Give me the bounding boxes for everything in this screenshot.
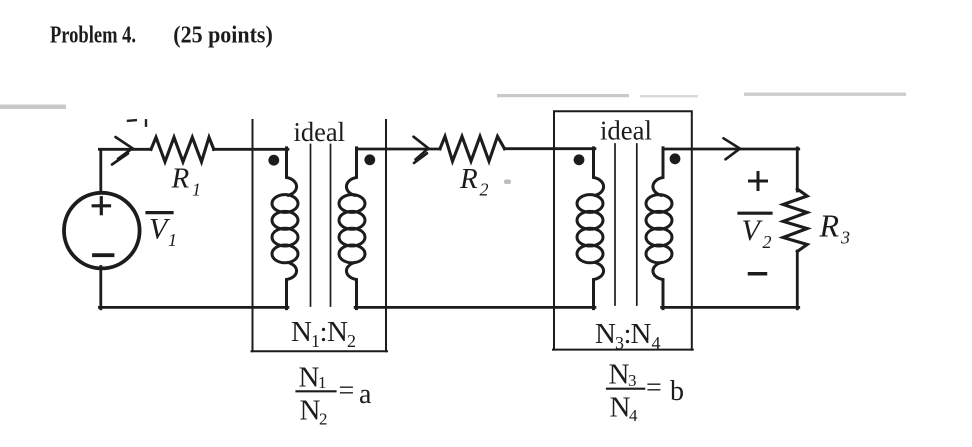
svg-text:3: 3	[840, 228, 850, 248]
wire bottom right	[662, 306, 799, 309]
T1 core lines	[311, 145, 331, 307]
wire right bottom lead	[796, 251, 799, 309]
svg-text:R: R	[171, 163, 190, 195]
wire R1 to T1	[214, 148, 288, 151]
svg-text:b: b	[670, 376, 684, 407]
stray pen mark above wire	[128, 120, 146, 126]
wire top left	[99, 148, 151, 151]
label V1	[147, 213, 177, 251]
svg-text:2: 2	[319, 410, 328, 429]
svg-text:ideal: ideal	[600, 116, 652, 146]
svg-text:=: =	[646, 373, 662, 404]
T1 secondary dot	[364, 154, 375, 165]
voltage source VS1	[64, 193, 140, 269]
svg-text:ideal: ideal	[294, 117, 346, 147]
scan streak top right	[497, 93, 906, 98]
scan streak top left	[0, 105, 66, 110]
svg-text:N: N	[595, 318, 616, 350]
wire bottom left	[99, 306, 288, 309]
svg-text:N: N	[631, 318, 652, 350]
svg-text:N: N	[300, 395, 321, 427]
svg-text:R: R	[459, 163, 478, 195]
scan smudge near R2	[504, 180, 511, 185]
label plus V2	[750, 173, 767, 190]
T2 primary dot	[574, 154, 585, 165]
wire bottom middle	[355, 306, 595, 309]
svg-text:V: V	[742, 214, 764, 247]
label N1:N2	[291, 316, 356, 351]
label R1	[171, 163, 202, 200]
T1 primary winding	[272, 148, 298, 309]
svg-text:R: R	[819, 208, 840, 244]
svg-text:1: 1	[318, 373, 327, 392]
svg-text:=: =	[339, 376, 355, 407]
wire T1 to R2	[357, 148, 441, 151]
resistor R3	[783, 189, 807, 252]
transformer T2 box bottom edge	[553, 349, 693, 351]
label R3	[819, 208, 851, 248]
label N3:N4	[595, 318, 661, 353]
svg-text:N: N	[327, 316, 348, 348]
svg-text:2: 2	[480, 180, 489, 200]
T1 primary dot	[268, 155, 279, 166]
wire right top lead	[796, 148, 799, 191]
svg-text:1: 1	[168, 230, 177, 250]
resistor R2	[440, 136, 505, 161]
current arrow 3	[724, 138, 741, 159]
T2 core lines	[615, 144, 637, 305]
wire source top lead	[99, 151, 102, 193]
T2 secondary dot	[670, 153, 681, 164]
svg-text:N: N	[299, 362, 320, 394]
svg-text:2: 2	[763, 232, 772, 252]
svg-text:a: a	[359, 379, 372, 410]
svg-text:3: 3	[628, 371, 637, 390]
svg-text:4: 4	[652, 333, 661, 353]
label R2	[459, 163, 489, 200]
T2 secondary winding	[646, 148, 672, 309]
svg-text:4: 4	[629, 406, 638, 425]
svg-text:Problem 4.: Problem 4.	[50, 22, 136, 48]
equation N1/N2 = a	[297, 362, 373, 429]
svg-text:(25 points): (25 points)	[173, 22, 272, 48]
current arrow 1	[112, 137, 133, 165]
current arrow 2	[414, 137, 429, 163]
svg-text:N: N	[610, 392, 631, 424]
transformer T1 box bottom edge	[252, 350, 388, 352]
wire source bottom lead	[99, 267, 102, 309]
resistor R1	[151, 137, 214, 162]
VS1 plus sign	[93, 198, 109, 214]
transformer T1 box left edge	[252, 120, 254, 351]
equation N3/N4 = b	[607, 359, 684, 426]
label minus V2	[750, 272, 766, 276]
T2 primary winding	[577, 148, 604, 309]
title	[50, 22, 273, 48]
wire R2 to T2	[505, 147, 595, 150]
svg-text:N: N	[291, 316, 312, 348]
svg-text:N: N	[609, 359, 630, 391]
wire T2 to load	[663, 148, 799, 151]
svg-text:1: 1	[192, 180, 201, 200]
VS1 minus sign	[94, 253, 113, 257]
transformer T1 box right edge	[385, 120, 387, 351]
transformer T2 box	[554, 111, 692, 349]
T1 secondary winding	[339, 148, 365, 309]
label V2	[739, 213, 772, 252]
svg-text:2: 2	[347, 331, 356, 351]
